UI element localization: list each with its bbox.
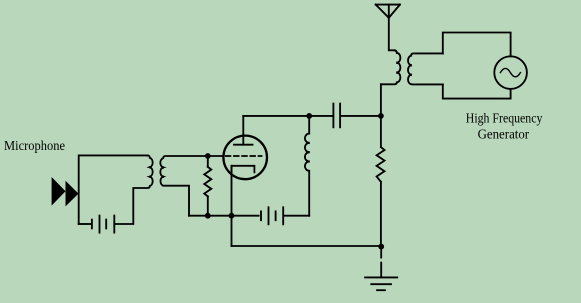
svg-text:Generator: Generator: [478, 126, 530, 141]
svg-text:Microphone: Microphone: [4, 138, 65, 153]
svg-text:High Frequency: High Frequency: [466, 110, 543, 125]
